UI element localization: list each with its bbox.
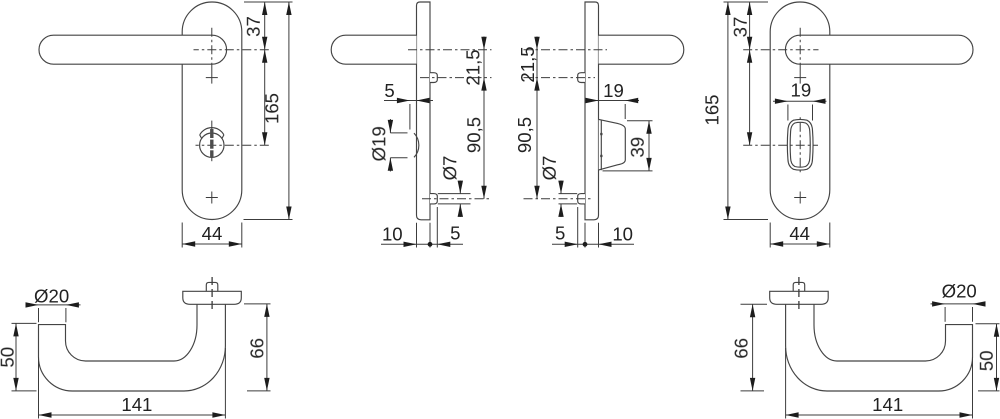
dimension 165 line fig4	[727, 2, 729, 220]
figure 3 lower screw head profile	[578, 194, 585, 204]
dimension Ø7 fig3	[559, 193, 578, 195]
figure 3 upper screw head profile	[578, 73, 585, 83]
figure 1 turn axis centerline (dash-dot cross)	[196, 144, 271, 146]
figure 4 lower fixing screw cross mark	[794, 197, 806, 199]
svg-text:21,5: 21,5	[517, 46, 538, 82]
figure 3 lower screw centerline	[524, 198, 594, 200]
svg-text:165: 165	[261, 93, 282, 124]
dimension 21,5 and 90,5 line fig2	[483, 37, 485, 199]
figure 1 lever handle grip (horizontal bar, rounded ends)	[39, 35, 227, 64]
svg-text:90,5: 90,5	[463, 117, 484, 153]
svg-text:165: 165	[701, 94, 722, 125]
figure 6 handle top view outline (U-shaped grip)	[786, 298, 973, 391]
svg-text:10: 10	[382, 224, 403, 245]
figure 1 lower fixing screw cross mark	[206, 197, 218, 199]
svg-text:66: 66	[246, 338, 267, 359]
dimension 37 line fig4	[749, 2, 751, 145]
dimension 141 fig5 (overall length)	[38, 357, 40, 419]
svg-text:37: 37	[730, 17, 751, 38]
figure 6 neck centerline	[798, 277, 800, 312]
figure 6 spindle pin	[793, 282, 805, 295]
dimension 44 fig4	[769, 223, 771, 248]
fig1 extension line bottom (plate bottom)	[244, 219, 293, 221]
dimension 66 fig5 (rose to grip bottom)	[244, 303, 271, 305]
dimension 39 fig3 (knob height)	[648, 121, 650, 171]
svg-text:19: 19	[791, 79, 812, 100]
dimension 19 fig4 (oval rose width)	[773, 100, 827, 102]
figure 3 lever handle profile (bar w. rounded right end)	[599, 35, 684, 64]
svg-text:37: 37	[243, 16, 264, 37]
figure 3 upper screw centerline	[524, 77, 596, 79]
dimension 44 fig1 (plate width)	[181, 223, 183, 248]
svg-text:90,5: 90,5	[514, 117, 535, 153]
fig4 extension line bottom	[724, 219, 769, 221]
svg-text:21,5: 21,5	[462, 49, 483, 85]
figure 4 turn axis centerline (dash-dot cross)	[743, 144, 819, 146]
dimension Ø19 fig2 (collar diameter)	[390, 132, 407, 134]
svg-text:66: 66	[731, 338, 752, 359]
dimension 19 fig3 (knob projection)	[585, 100, 639, 102]
figure 1 thumbturn knob bar (gray)	[210, 129, 213, 158]
svg-text:44: 44	[789, 223, 810, 244]
figure 4 oval turn rosette (outer)	[787, 119, 813, 170]
dimension 141 fig6	[972, 357, 974, 419]
figure 2 cylinder collar bump (Ø19 profile)	[414, 133, 419, 157]
figure 4 backplate (front view)	[770, 2, 830, 220]
figure 1 upper fixing screw cross mark	[206, 77, 218, 79]
figure 2 upper screw head profile	[430, 73, 437, 83]
figure 2 lever handle profile (bar w. rounded left end)	[331, 35, 416, 64]
figure 6 rose / plate top view	[770, 291, 829, 304]
figure 1 handle axis centerline (dash-dot cross)	[194, 49, 271, 51]
svg-text:50: 50	[976, 350, 997, 371]
dimension 37 line fig1 (plate top to handle axis)	[264, 2, 266, 145]
svg-text:5: 5	[555, 222, 565, 243]
figure 3 handle axis centerline	[524, 49, 608, 51]
svg-text:19: 19	[603, 80, 624, 101]
svg-text:141: 141	[872, 394, 903, 415]
svg-text:Ø7: Ø7	[539, 156, 560, 181]
svg-text:Ø19: Ø19	[368, 126, 389, 161]
figure 5 neck centerline	[211, 277, 213, 312]
svg-text:50: 50	[0, 347, 18, 368]
svg-text:39: 39	[627, 137, 648, 158]
dimension 50 fig5 (grip end height)	[12, 322, 37, 324]
svg-text:44: 44	[202, 223, 223, 244]
svg-text:Ø20: Ø20	[942, 280, 977, 301]
dimension 21,5 and 90,5 line fig3	[536, 37, 538, 199]
dimension 50 fig6	[976, 323, 1000, 325]
dimension 165 line fig1 (plate height)	[288, 2, 290, 220]
figure 3 backplate profile strip	[585, 2, 599, 220]
figure 1 turn indicator arc above circle	[200, 128, 224, 135]
figure 5 handle top view outline (U-shaped grip)	[39, 298, 226, 391]
figure 2 lower screw centerline	[422, 198, 492, 200]
fig4 extension line top	[724, 1, 769, 3]
figure 2 handle axis centerline	[408, 49, 492, 51]
figure 4 upper fixing screw cross mark	[794, 77, 806, 79]
figure 1 backplate (front view, stadium shape 44x165)	[182, 2, 242, 220]
fig1 extension line top (plate top)	[244, 1, 293, 3]
figure 1 WC turn rosette circle	[200, 133, 224, 157]
dimension 5 collar protrusion fig2	[384, 100, 433, 102]
figure 2 lower screw head profile	[430, 194, 437, 204]
dimension 10 and 5 bottom fig2	[416, 223, 418, 248]
dimension Ø20 fig6	[931, 303, 986, 305]
svg-text:5: 5	[450, 222, 460, 243]
svg-text:141: 141	[121, 394, 152, 415]
dimension 66 fig6	[741, 303, 768, 305]
figure 4 lever handle grip	[785, 35, 973, 64]
figure 5 rose / plate top view	[183, 291, 242, 304]
figure 4 oval turn rosette (inner)	[790, 122, 810, 167]
svg-text:Ø7: Ø7	[439, 156, 460, 181]
figure 2 upper screw centerline	[420, 77, 492, 79]
dimension Ø20 fig5 (grip diameter)	[26, 304, 81, 306]
dimension Ø7 fig2 (screw diameter)	[438, 193, 471, 195]
svg-text:5: 5	[384, 80, 394, 101]
figure 3 thumbturn knob profile	[599, 119, 626, 169]
figure 2 backplate profile strip	[417, 2, 431, 220]
figure 5 spindle pin	[206, 282, 218, 295]
dimension 5 and 10 bottom fig3	[598, 223, 600, 248]
svg-text:10: 10	[612, 224, 633, 245]
svg-text:Ø20: Ø20	[34, 285, 69, 306]
figure 4 handle axis centerline (dash-dot cross)	[743, 49, 819, 51]
